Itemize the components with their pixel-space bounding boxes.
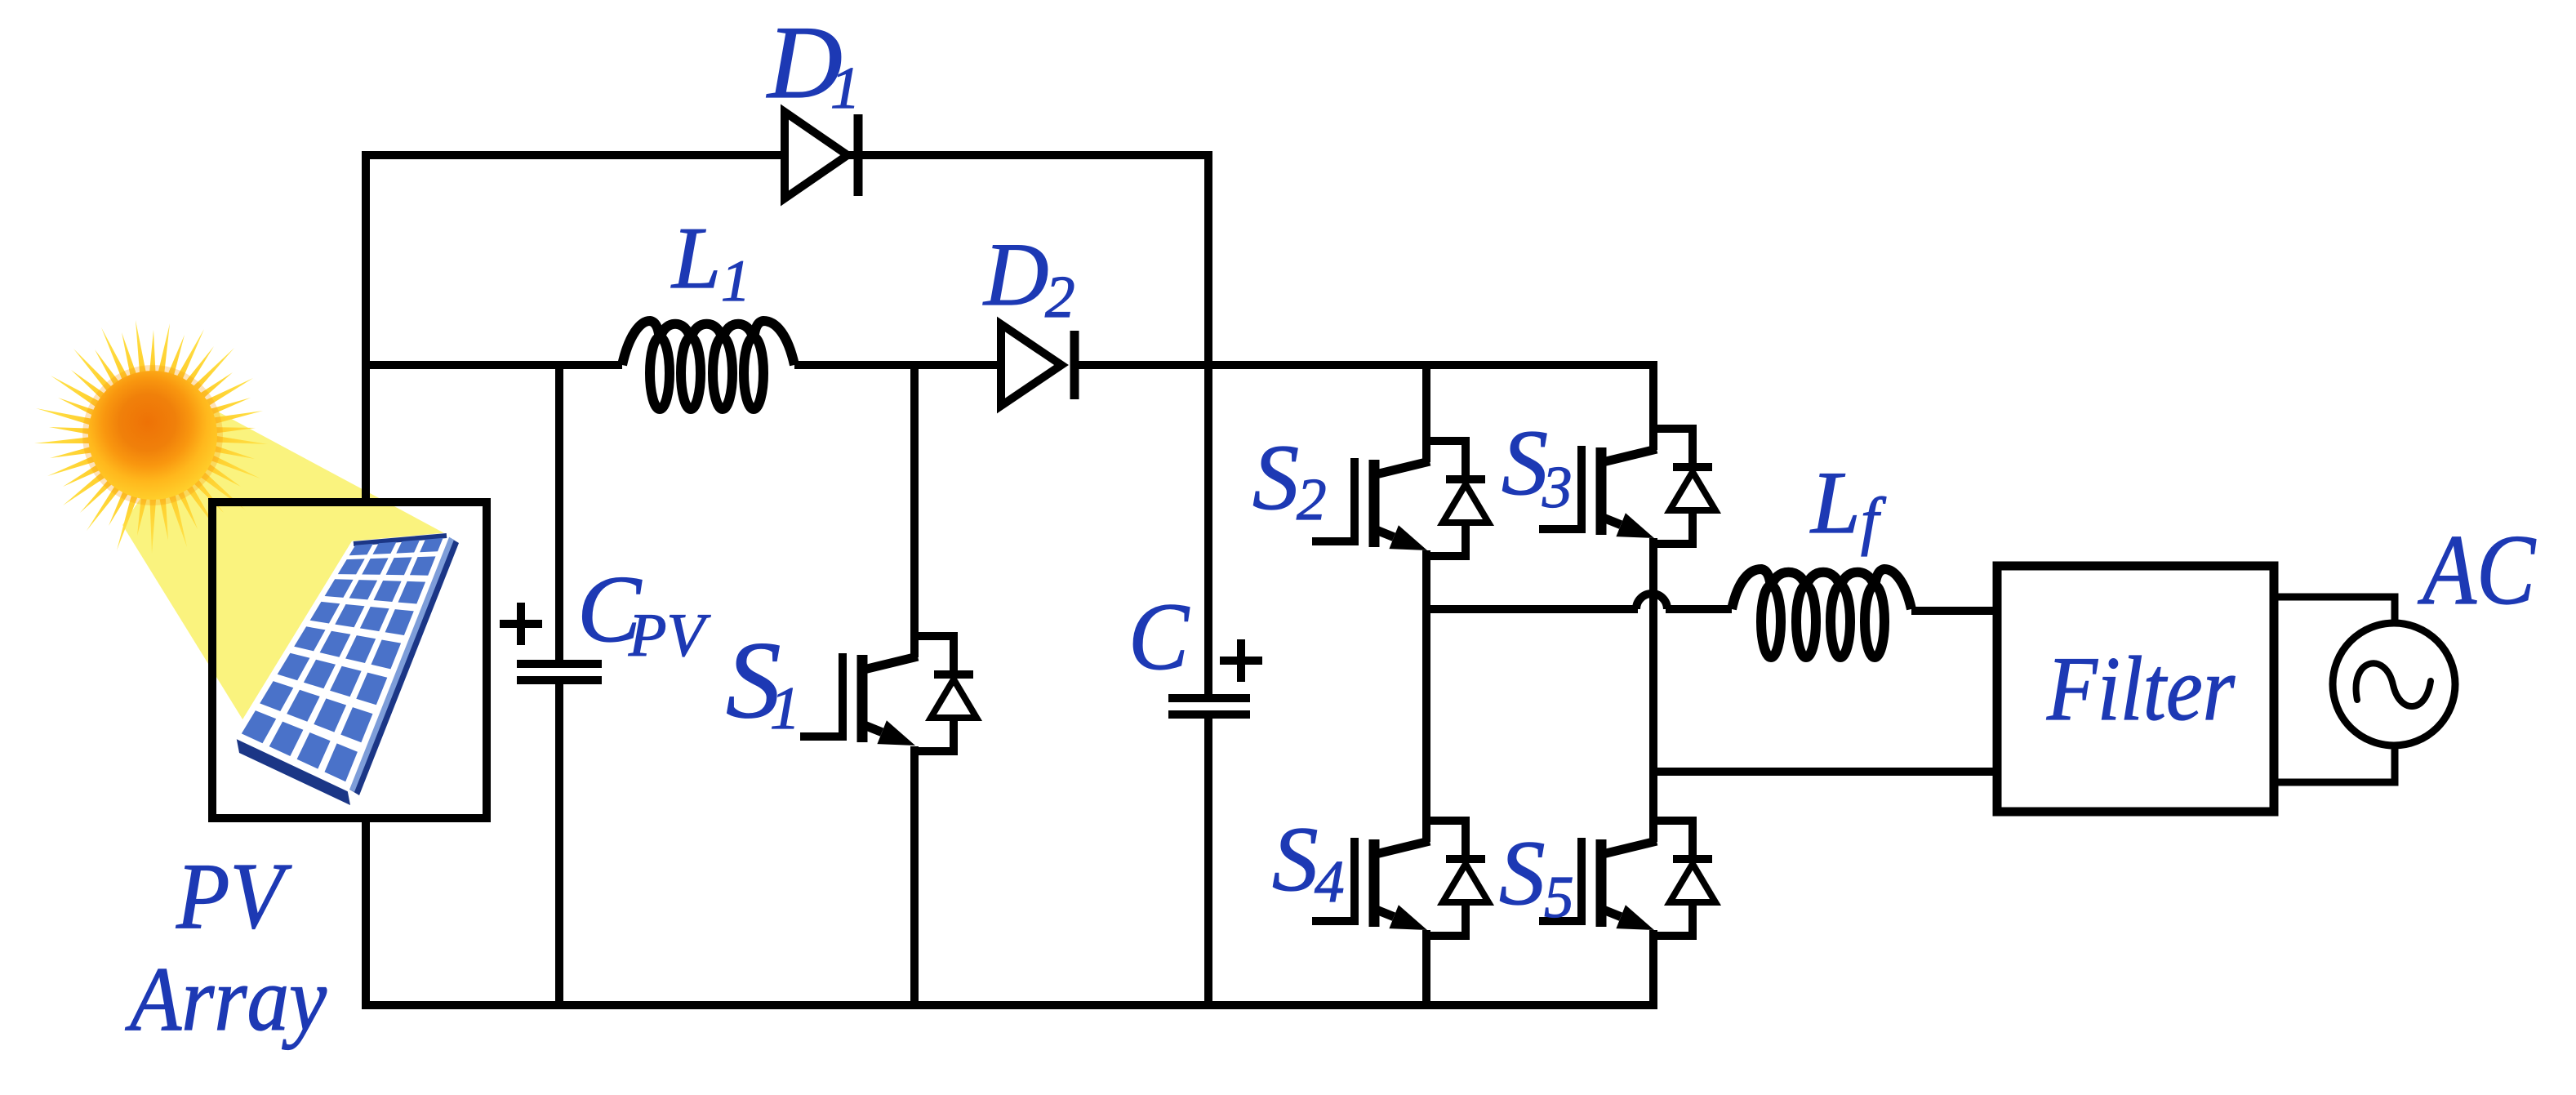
CPV polarity plus: [500, 603, 542, 645]
svg-text:3: 3: [1542, 454, 1573, 520]
diode D2: [1001, 324, 1061, 406]
wire: S4 emitter to bottom bus: [1422, 930, 1430, 1005]
AC source circle: [2333, 623, 2455, 746]
wire: S3 collector from bus: [1649, 361, 1657, 430]
wire: S5 emitter to bottom bus: [1649, 930, 1657, 1005]
capacitor CPV: [517, 660, 602, 668]
solar panel: [236, 536, 459, 805]
wire: left vertical below PV box to bottom bus: [362, 818, 370, 1005]
wire: Lf to filter box: [1911, 607, 1997, 615]
svg-text:L: L: [670, 210, 721, 307]
svg-text:S: S: [1502, 411, 1548, 514]
wire: C branch top (junction to C): [1204, 361, 1212, 694]
AC sine wave: [2356, 663, 2431, 706]
C polarity plus: [1220, 639, 1262, 682]
wire: S1 emitter to bottom bus: [910, 746, 919, 1005]
inductor Lf: [1732, 569, 1911, 657]
wire: CPV branch bottom: [555, 684, 563, 1005]
wire: bottom bus: [362, 1001, 1657, 1009]
sun halo ring: [82, 365, 223, 505]
sun rays: [34, 320, 268, 554]
diode D1: [785, 112, 848, 198]
wire: S1 collector from second row: [910, 361, 919, 636]
svg-text:S: S: [1272, 808, 1319, 910]
wire: C branch bottom: [1204, 719, 1212, 1005]
inductor L1: [622, 321, 794, 409]
svg-text:Filter: Filter: [2046, 639, 2235, 740]
svg-text:AC: AC: [2418, 514, 2537, 625]
transistor S2 (IGBT with antiparallel diode): [1312, 439, 1488, 556]
wire: bridge output A (mid row) to crossover: [1426, 605, 1638, 613]
svg-text:1: 1: [721, 248, 750, 314]
filter box: [1997, 566, 2274, 812]
wire: S2 emitter / left leg to S4: [1422, 550, 1430, 821]
svg-text:2: 2: [1045, 264, 1075, 330]
wire: second row right segment (D2 to bridge top right corner): [1074, 361, 1653, 369]
svg-text:S: S: [1499, 822, 1546, 924]
svg-text:PV: PV: [176, 844, 292, 948]
transistor S3 (IGBT with antiparallel diode): [1539, 427, 1715, 544]
PV array box: [212, 502, 487, 818]
capacitor C: [1168, 694, 1250, 702]
wire: second row middle segment (L1 to D2): [794, 361, 1003, 369]
wire: crossover to Lf: [1666, 605, 1732, 613]
sun core: [88, 371, 217, 500]
svg-text:L: L: [1809, 453, 1861, 552]
svg-text:5: 5: [1544, 864, 1574, 930]
svg-text:C: C: [1128, 583, 1190, 690]
wire hop: crossover arc over right leg: [1636, 594, 1667, 609]
sunbeam: [122, 404, 447, 750]
transistor S5 (IGBT with antiparallel diode): [1539, 819, 1715, 936]
wire: filter to AC bottom: [2274, 746, 2395, 782]
svg-text:Array: Array: [125, 949, 327, 1050]
wire: second row left segment (to L1): [362, 361, 622, 369]
svg-text:4: 4: [1315, 848, 1345, 915]
transistor S1 (IGBT with antiparallel diode): [800, 634, 977, 751]
wire: bridge output B (lower row) to filter box: [1653, 768, 1997, 776]
svg-text:D: D: [982, 225, 1048, 324]
transistor S4 (IGBT with antiparallel diode): [1312, 819, 1488, 936]
svg-text:S: S: [1252, 425, 1299, 529]
wire: filter to AC top: [2274, 597, 2395, 623]
svg-text:1: 1: [770, 675, 800, 742]
svg-text:PV: PV: [628, 602, 711, 670]
wire: CPV branch top: [555, 361, 563, 660]
svg-text:2: 2: [1297, 466, 1327, 532]
wire: S3 emitter / right leg to S5 (passes under crossover): [1649, 538, 1657, 821]
wire: left vertical + top bus + right vertical (D1 branch): [366, 155, 1208, 502]
wire: S2 collector from bus: [1422, 361, 1430, 442]
svg-text:1: 1: [830, 55, 861, 121]
